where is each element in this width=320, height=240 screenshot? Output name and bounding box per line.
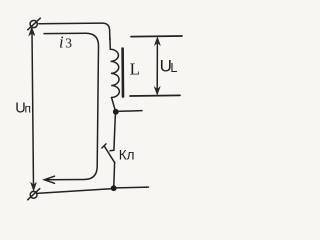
wire switch upper with contact foot [110,113,115,151]
svg-text:3: 3 [65,36,72,51]
svg-text:i: i [59,33,64,52]
voltage arrow U_L (double-headed) [154,37,160,95]
wire right mid (coil bottom to junction) [112,98,116,111]
junction dot top [113,109,119,115]
junction dot bottom [111,185,117,191]
svg-text:п: п [25,102,32,116]
U_L bottom reference bar [130,94,180,97]
wire stub right of bottom junction [115,186,149,189]
inductor L coil [110,38,119,98]
switch Кл blade [102,144,115,163]
wire stub right of top junction [117,110,142,113]
svg-text:L: L [130,59,140,78]
terminal node B (bottom-left input) [28,189,40,200]
voltage source arrow Uп (left wire, arrowheads both ends) [29,27,37,191]
U_L top reference bar [131,35,182,38]
wire switch lower [113,163,116,187]
current arrow i3 (loop) [44,33,99,183]
wire top [39,23,110,40]
svg-text:L: L [170,61,177,75]
inductor core bar [121,49,124,97]
terminal node A (top-left input) [28,18,41,30]
svg-text:Кл: Кл [119,148,135,163]
wire bottom [37,189,111,194]
